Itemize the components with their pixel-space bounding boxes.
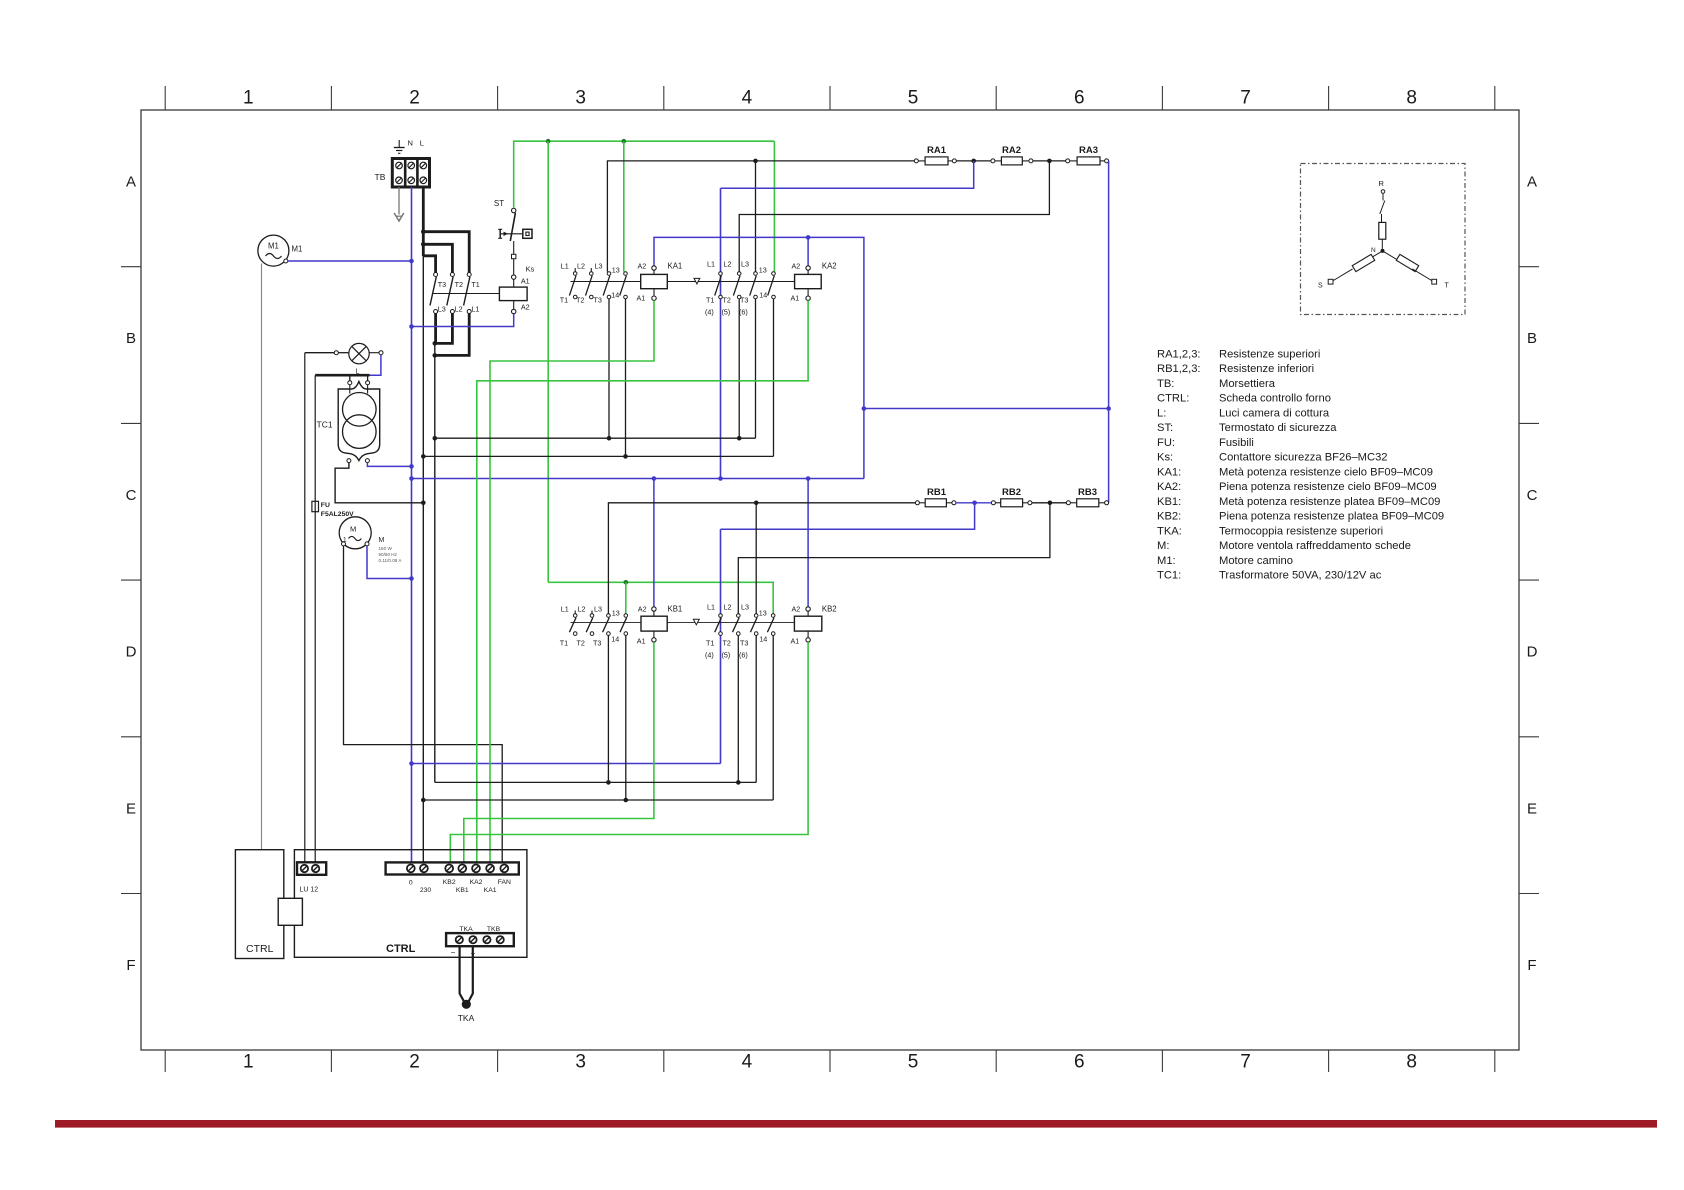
wire TC1 primary loop (315, 375, 369, 393)
svg-text:Piena potenza resistenze cielo: Piena potenza resistenze cielo BF09–MC09 (1219, 481, 1437, 493)
svg-text:A2: A2 (792, 605, 801, 614)
junction TC1-sec-right on N bus (409, 464, 414, 469)
svg-text:L2: L2 (724, 260, 732, 269)
svg-text:KB2: KB2 (443, 879, 456, 886)
svg-text:T2: T2 (723, 296, 731, 305)
svg-text:Metà potenza resistenze platea: Metà potenza resistenze platea BF09–MC09 (1219, 496, 1440, 508)
svg-text:A1: A1 (521, 277, 530, 286)
svg-text:M1:: M1: (1157, 555, 1176, 567)
wire TC1 secondary left to L bus (335, 463, 423, 503)
svg-text:3: 3 (575, 88, 586, 109)
strip labels (409, 879, 511, 894)
ruler ticks bottom (165, 1050, 1495, 1072)
ruler ticks right (1519, 267, 1539, 894)
svg-text:M: M (350, 525, 356, 534)
svg-text:L1: L1 (707, 260, 715, 269)
svg-text:TKB: TKB (487, 926, 501, 933)
wire RA feed from KA1-L3 (607, 161, 914, 272)
svg-text:(4): (4) (705, 308, 714, 317)
junction on KA-A2 drop vertical (862, 406, 867, 411)
junction KB2-A2 (806, 476, 811, 481)
svg-text:Termostato di sicurezza: Termostato di sicurezza (1219, 422, 1337, 434)
svg-text:7: 7 (1240, 88, 1251, 109)
junction KA1-T3 (607, 436, 612, 441)
resistor RA1 (914, 145, 956, 165)
junction green KB1-13 (624, 580, 629, 585)
svg-text:FAN: FAN (498, 879, 511, 886)
svg-text:(6): (6) (739, 308, 748, 317)
wire blue bus to RB1/RB2 tap (721, 503, 975, 529)
svg-text:D: D (126, 644, 137, 661)
svg-text:KA2: KA2 (822, 262, 837, 271)
junction RA2/RA3 (black tap) (1047, 159, 1052, 164)
wire blue tap RA1/RA2 down-left (721, 161, 974, 188)
svg-text:8: 8 (1406, 88, 1417, 109)
wire star top with break (1380, 193, 1385, 222)
svg-text:(5): (5) (722, 651, 731, 660)
svg-text:RA2: RA2 (1002, 145, 1021, 156)
wire KB1-T3 down (607, 635, 609, 782)
junction L net lower (421, 798, 426, 803)
wire KA2-T3 down (755, 299, 757, 438)
svg-text:KB2:: KB2: (1157, 511, 1181, 523)
resistor RB2 (991, 487, 1032, 507)
svg-text:M:: M: (1157, 540, 1169, 552)
wire lamp left (305, 352, 349, 354)
svg-text:14: 14 (759, 635, 767, 644)
svg-text:RA1: RA1 (927, 145, 947, 156)
svg-text:FU: FU (321, 502, 330, 509)
svg-text:T3: T3 (740, 639, 748, 648)
svg-text:Piena potenza resistenze plate: Piena potenza resistenze platea BF09–MC0… (1219, 511, 1444, 523)
wire green KB1-13 stub (625, 582, 627, 613)
wire KA2-14 down (773, 299, 775, 457)
svg-text:1: 1 (243, 1052, 254, 1073)
svg-text:230: 230 (420, 887, 432, 894)
svg-text:T2: T2 (455, 280, 463, 289)
wire KA2-A2 drop (807, 237, 809, 266)
svg-text:KA1:: KA1: (1157, 466, 1181, 478)
svg-text:RB1,2,3:: RB1,2,3: (1157, 363, 1201, 375)
svg-text:TKA: TKA (458, 1013, 475, 1023)
svg-text:A1: A1 (791, 637, 800, 646)
wire to node N (1381, 239, 1383, 249)
wire Ks outputs merge (435, 314, 470, 356)
svg-text:LU 12: LU 12 (300, 887, 319, 894)
svg-text:2: 2 (409, 88, 420, 109)
svg-text:C: C (126, 487, 137, 504)
svg-text:A1: A1 (637, 294, 646, 303)
relay box on CTRL edge (278, 898, 302, 925)
svg-text:CTRL: CTRL (386, 943, 416, 955)
resistor star vertical (1379, 222, 1386, 239)
labels TKA TKB strip (459, 926, 500, 933)
svg-text:Ks: Ks (526, 265, 535, 274)
label M data (379, 537, 403, 563)
svg-text:1: 1 (243, 88, 254, 109)
wire Ks output down (434, 343, 436, 782)
wire KB2-A2 drop (807, 479, 809, 608)
wire net L to KA 14s (423, 455, 773, 457)
svg-text:Metà potenza resistenze cielo: Metà potenza resistenze cielo BF09–MC09 (1219, 466, 1433, 478)
svg-text:6: 6 (1074, 88, 1085, 109)
svg-text:Trasformatore 50VA, 230/12V ac: Trasformatore 50VA, 230/12V ac (1219, 570, 1382, 582)
svg-text:C: C (1527, 487, 1538, 504)
wire Ks A2 to N (blue) (412, 314, 514, 327)
svg-text:E: E (126, 800, 136, 817)
wire RB feed from KB1-L3 (608, 503, 915, 614)
resistor RA2 (991, 145, 1033, 165)
lamp L (camera light) (334, 343, 383, 363)
svg-text:L3: L3 (594, 605, 602, 614)
svg-text:Motore ventola raffreddamento: Motore ventola raffreddamento schede (1219, 540, 1411, 552)
svg-text:L1: L1 (707, 603, 715, 612)
wire FU line vertical (314, 375, 316, 864)
KB2 labels L1 L2 L3 13 (707, 603, 767, 618)
ruler ticks left (121, 267, 141, 894)
svg-text:A2: A2 (521, 303, 530, 312)
svg-text:T3: T3 (438, 280, 446, 289)
svg-text:B: B (1527, 330, 1537, 347)
svg-text:TC1: TC1 (317, 420, 333, 430)
wire KA1-A1 green (490, 300, 654, 864)
svg-text:A2: A2 (638, 605, 647, 614)
wire lamp-left vertical to LU12 (304, 353, 306, 865)
junction KB1-A2 (652, 476, 657, 481)
transformer TC1 enclosure (338, 382, 380, 461)
wire L feed branch 1 (to Ks T1) (423, 232, 469, 273)
pin labels L3 L2 L1 (438, 305, 480, 314)
junction bus x coil supply (718, 476, 723, 481)
svg-text:5: 5 (908, 1052, 919, 1073)
wire RA2-RA3 link (1033, 160, 1066, 162)
junction on N bus at M1 (409, 259, 414, 264)
ground arrow below TB (394, 187, 404, 221)
wire RA1-RA2 link (956, 160, 991, 162)
wire KB2-L3 drop (755, 503, 757, 614)
KB1 top stubs L1 L2 (575, 611, 592, 614)
junctions Ks output merge (433, 341, 438, 358)
wire blue mid-tap bus vertical (upper) (720, 188, 722, 478)
junction Ks-out (433, 436, 438, 441)
svg-text:R: R (1379, 179, 1385, 188)
svg-text:A: A (126, 174, 136, 191)
wire RB2-RB3 link (1032, 502, 1067, 504)
svg-text:L: L (420, 139, 424, 148)
svg-text:T: T (1445, 283, 1450, 290)
KB1 labels L1 L2 L3 13 (561, 605, 620, 618)
svg-text:F5AL250V: F5AL250V (321, 511, 354, 518)
node R (star top) (1379, 179, 1385, 193)
KA1 labels L1 L2 L3 13 (561, 262, 620, 275)
svg-text:7: 7 (1240, 1052, 1251, 1073)
svg-text:6: 6 (1074, 1052, 1085, 1073)
svg-text:TKA:: TKA: (1157, 525, 1182, 537)
wire KB2-T3 down (755, 635, 757, 782)
resistor star left branch + node S (1318, 251, 1383, 290)
svg-text:Resistenze inferiori: Resistenze inferiori (1219, 363, 1314, 375)
wire RB1-RB2 link (blue) (956, 502, 992, 504)
junction KB1-14 (624, 798, 629, 803)
svg-text:KB1: KB1 (456, 887, 469, 894)
Ks linkage line (433, 293, 499, 295)
svg-text:RB2: RB2 (1002, 487, 1021, 498)
contactor KB2 contacts L1,L2,L3,13 (715, 614, 775, 636)
wire green main vertical (547, 141, 549, 582)
box CTRL left (235, 850, 283, 959)
wire lamp blue drop (370, 355, 381, 376)
ruler numbers top (243, 88, 1417, 109)
wire black tap RB2/RB3 down-left to KB2-L2 (738, 503, 1050, 614)
KA1 top stubs L1 L2 (575, 268, 591, 272)
svg-text:S: S (1318, 283, 1323, 290)
svg-text:E: E (1527, 800, 1537, 817)
svg-text:N: N (408, 139, 413, 148)
junction on N bus at Ks A2 (409, 324, 414, 329)
motor M (fan) (339, 517, 371, 549)
ruler ticks top (165, 86, 1495, 110)
svg-text:F: F (126, 957, 135, 974)
wire ST to Ks coil (512, 241, 516, 275)
junction KB1-T3 (606, 780, 611, 785)
svg-text:L1: L1 (561, 262, 569, 271)
KB1 linkage (571, 619, 795, 625)
terminal block TKA/TKB (446, 933, 514, 946)
svg-text:B: B (126, 330, 136, 347)
svg-text:3: 3 (575, 1052, 586, 1073)
wire KA2-L3 drop (755, 161, 757, 272)
svg-text:(6): (6) (739, 651, 748, 660)
resistor star right branch + node T (1383, 251, 1450, 290)
junction blue 408 tap (1106, 406, 1111, 411)
svg-text:Scheda controllo forno: Scheda controllo forno (1219, 393, 1331, 405)
svg-text:T2: T2 (723, 639, 731, 648)
wire lamp right to TC1 primary (blue) (369, 352, 379, 354)
coil KA1 (641, 266, 668, 301)
svg-text:FU:: FU: (1157, 437, 1175, 449)
svg-text:TB:: TB: (1157, 378, 1174, 390)
junction RB1/RB2 tap (972, 501, 977, 506)
wire blue 408 tap left (864, 408, 1109, 410)
wire green KA2-13 drop (773, 141, 775, 272)
svg-text:150 W: 150 W (379, 546, 393, 551)
junction bus return on N bus (409, 761, 414, 766)
svg-text:T1: T1 (560, 639, 568, 648)
svg-text:RA1,2,3:: RA1,2,3: (1157, 348, 1201, 360)
resistor RA3 (1066, 145, 1109, 165)
junction RB2/RB3 tap (1048, 501, 1053, 506)
svg-text:L1: L1 (471, 305, 479, 314)
svg-text:13: 13 (759, 266, 767, 275)
wire blue bus return to N (412, 763, 721, 765)
svg-text:14: 14 (611, 635, 619, 644)
svg-text:8: 8 (1406, 1052, 1417, 1073)
svg-text:Motore camino: Motore camino (1219, 555, 1293, 567)
wire KB1-A2 drop (653, 479, 655, 608)
KB2 labels (4)(5)(6) (705, 651, 748, 660)
junction KB2-L3 feed (754, 501, 759, 506)
wire M1 to N bus (blue) (288, 260, 412, 262)
labels minus plus (451, 948, 476, 958)
svg-text:T2: T2 (576, 296, 584, 305)
KA2 labels T1 T2 T3 14 (706, 291, 767, 305)
svg-text:L2: L2 (724, 603, 732, 612)
terminal strip CTRL main (386, 862, 519, 874)
svg-text:M1: M1 (292, 245, 303, 254)
resistor RB3 (1066, 487, 1108, 507)
svg-text:L:: L: (1157, 407, 1166, 419)
pin labels T3 T2 T1 (438, 280, 480, 289)
svg-text:Luci camera di cottura: Luci camera di cottura (1219, 407, 1330, 419)
KA1 labels T1 T2 T3 14 (560, 291, 620, 305)
svg-text:KA2: KA2 (470, 879, 483, 886)
contactor Ks main contacts T3/T2/T1 (430, 273, 471, 314)
wire KA1-T3 down (608, 299, 610, 438)
svg-text:L3: L3 (741, 260, 749, 269)
svg-text:14: 14 (759, 291, 767, 300)
resistor RB1 (915, 487, 956, 507)
wire KB2-14 down (772, 635, 774, 800)
svg-text:Fusibili: Fusibili (1219, 437, 1254, 449)
svg-text:0.11/0.08 A: 0.11/0.08 A (379, 558, 403, 563)
wire L bus (black vertical from TB) (422, 187, 425, 865)
svg-text:CTRL:: CTRL: (1157, 393, 1189, 405)
junctions on L bus bundle (421, 229, 426, 246)
wire M left pin to FAN (344, 546, 503, 865)
svg-text:4: 4 (742, 88, 753, 109)
star-connection resistor inset box (1301, 164, 1466, 315)
junction KB2-T2 (736, 780, 741, 785)
thermostat ST (494, 199, 532, 241)
wire RA3 right end (blue) down (1108, 161, 1110, 503)
svg-text:A2: A2 (638, 262, 647, 271)
wire M right pin to N (blue) (367, 546, 412, 579)
svg-text:Ks:: Ks: (1157, 452, 1173, 464)
board CTRL main (294, 850, 527, 958)
svg-text:RB1: RB1 (927, 487, 947, 498)
svg-text:T3: T3 (740, 296, 748, 305)
svg-text:TB: TB (375, 172, 386, 182)
svg-text:−: − (451, 948, 456, 957)
svg-text:D: D (1527, 644, 1538, 661)
svg-text:KB1:: KB1: (1157, 496, 1181, 508)
red footer bar (55, 1120, 1657, 1128)
wire green ST top horizontal (514, 141, 775, 208)
svg-text:L3: L3 (438, 305, 446, 314)
junction RA1/RA2 (blue tap) (971, 159, 976, 164)
svg-text:Resistenze superiori: Resistenze superiori (1219, 348, 1320, 360)
node N (star center) (1371, 247, 1385, 254)
svg-text:Contattore sicurezza BF26–MC32: Contattore sicurezza BF26–MC32 (1219, 452, 1388, 464)
wire KA1-14 down (625, 299, 627, 457)
svg-text:T1: T1 (471, 280, 479, 289)
row letters left (126, 174, 137, 975)
contactor KB1 contacts L1,L2,L3,13 (569, 614, 627, 636)
legend text block (1157, 348, 1444, 581)
wire green KA1-13 drop (623, 141, 625, 272)
svg-text:L2: L2 (577, 262, 585, 271)
svg-text:T2: T2 (577, 639, 585, 648)
KA1 linkage (571, 278, 795, 284)
junction coil supply on N bus (409, 476, 414, 481)
svg-text:2: 2 (409, 1052, 420, 1073)
wire KB1-A1 green (464, 642, 654, 864)
svg-text:Termocoppia resistenze superio: Termocoppia resistenze superiori (1219, 525, 1383, 537)
thermocouple TKA probe (460, 946, 473, 1009)
svg-text:A2: A2 (792, 262, 801, 271)
wire blue KA coil A2 supply (654, 237, 864, 478)
svg-text:A: A (1527, 174, 1537, 191)
wire green lower horizontal to KB row (548, 582, 773, 613)
svg-text:TC1:: TC1: (1157, 570, 1181, 582)
svg-text:KA2:: KA2: (1157, 481, 1181, 493)
svg-text:L2: L2 (455, 305, 463, 314)
svg-text:A1: A1 (637, 637, 646, 646)
svg-text:A1: A1 (791, 294, 800, 303)
wire TC1 secondary stubs (347, 459, 370, 463)
svg-text:KA1: KA1 (668, 262, 683, 271)
svg-text:L2: L2 (578, 605, 586, 614)
svg-text:T3: T3 (593, 639, 601, 648)
svg-text:RA3: RA3 (1079, 145, 1098, 156)
svg-text:Morsettiera: Morsettiera (1219, 378, 1276, 390)
ground symbol above TB (394, 140, 405, 153)
KB2 labels T1 T2 T3 14 (706, 635, 767, 648)
wire net L to KB 14s (423, 799, 773, 801)
svg-text:T1: T1 (560, 296, 568, 305)
svg-text:ST:: ST: (1157, 422, 1173, 434)
junction KA1-14 (623, 454, 628, 459)
junction KA2-A2 (806, 235, 811, 240)
svg-text:CTRL: CTRL (246, 943, 274, 955)
svg-text:KA1: KA1 (484, 887, 497, 894)
wire KB1-14 down (625, 635, 627, 800)
svg-text:L1: L1 (561, 605, 569, 614)
KA2 labels (4)(5)(6) (705, 308, 748, 317)
svg-text:KB1: KB1 (668, 605, 683, 614)
svg-text:50/60 Hz: 50/60 Hz (379, 552, 398, 557)
coil Ks (499, 275, 527, 314)
junction M on N bus (409, 576, 414, 581)
wire TC1 secondary right to N (blue) (367, 463, 411, 467)
svg-text:T1: T1 (706, 639, 714, 648)
svg-text:14: 14 (611, 291, 619, 300)
fuse FU (312, 501, 319, 511)
junction green KA1-13 (622, 139, 627, 144)
contactor KA2 contacts L1,L2,L3,13 (715, 272, 776, 299)
wire net Ks-out to KB T3s (435, 781, 756, 783)
terminal block TB (392, 159, 429, 188)
wire L feed branch 3 (to Ks T3) (423, 256, 435, 273)
wire net Ks-out to KA T3s (435, 437, 756, 439)
coil KB1 (641, 607, 667, 642)
svg-text:KB2: KB2 (822, 605, 837, 614)
wire blue mid-tap bus vertical (lower) (720, 529, 722, 763)
svg-text:M1: M1 (268, 242, 279, 251)
svg-text:L3: L3 (741, 603, 749, 612)
svg-text:13: 13 (612, 609, 620, 618)
junction KA2-L3 feed (753, 159, 758, 164)
wire M1 to CTRL (gray) (261, 264, 263, 850)
wire KA2-A1 green (477, 300, 808, 864)
svg-text:F: F (1527, 957, 1536, 974)
coil KA2 (795, 266, 822, 301)
svg-text:L3: L3 (595, 262, 603, 271)
svg-text:4: 4 (742, 1052, 753, 1073)
svg-text:N: N (1371, 247, 1376, 254)
svg-text:13: 13 (759, 609, 767, 618)
wire N bus (blue vertical from TB) (411, 187, 413, 865)
